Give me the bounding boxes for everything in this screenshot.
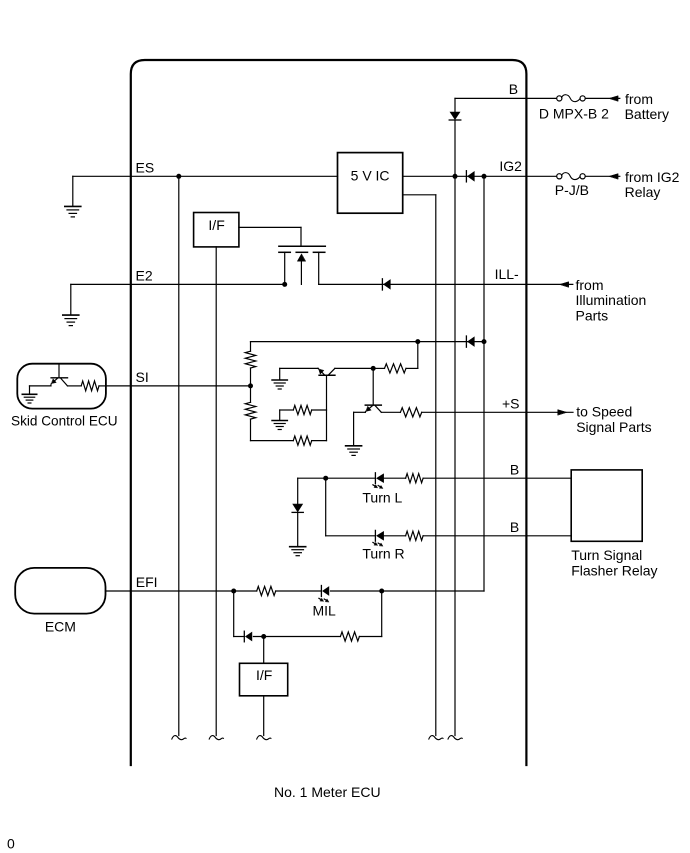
svg-text:EFI: EFI: [136, 574, 158, 590]
svg-text:5 V IC: 5 V IC: [351, 167, 390, 183]
svg-text:from IG2: from IG2: [625, 169, 680, 185]
svg-text:Battery: Battery: [625, 106, 669, 122]
svg-text:B: B: [510, 461, 519, 477]
svg-text:SI: SI: [136, 369, 149, 385]
svg-text:0: 0: [7, 835, 15, 851]
svg-text:Parts: Parts: [576, 307, 609, 323]
svg-text:IG2: IG2: [499, 158, 522, 174]
svg-text:Turn R: Turn R: [362, 546, 404, 562]
svg-text:B: B: [509, 81, 518, 97]
svg-text:No. 1 Meter ECU: No. 1 Meter ECU: [274, 784, 381, 800]
svg-text:B: B: [510, 519, 519, 535]
svg-text:ILL-: ILL-: [495, 266, 519, 282]
svg-text:Turn Signal: Turn Signal: [571, 547, 642, 563]
svg-text:ES: ES: [136, 160, 155, 176]
svg-text:to Speed: to Speed: [576, 404, 632, 420]
svg-text:Relay: Relay: [625, 184, 661, 200]
svg-text:I/F: I/F: [256, 667, 272, 683]
svg-text:Skid Control ECU: Skid Control ECU: [11, 414, 118, 429]
svg-text:+S: +S: [502, 395, 520, 411]
svg-text:E2: E2: [136, 268, 153, 284]
svg-text:ECM: ECM: [45, 619, 76, 635]
svg-text:from: from: [625, 91, 653, 107]
svg-text:Turn L: Turn L: [362, 490, 402, 506]
svg-text:Flasher Relay: Flasher Relay: [571, 563, 657, 579]
svg-text:I/F: I/F: [208, 217, 224, 233]
svg-text:from: from: [576, 277, 604, 293]
svg-text:Illumination: Illumination: [576, 292, 647, 308]
svg-text:Signal Parts: Signal Parts: [576, 419, 651, 435]
svg-text:D MPX-B 2: D MPX-B 2: [539, 106, 609, 122]
svg-text:MIL: MIL: [313, 603, 337, 619]
svg-text:P-J/B: P-J/B: [555, 182, 589, 198]
